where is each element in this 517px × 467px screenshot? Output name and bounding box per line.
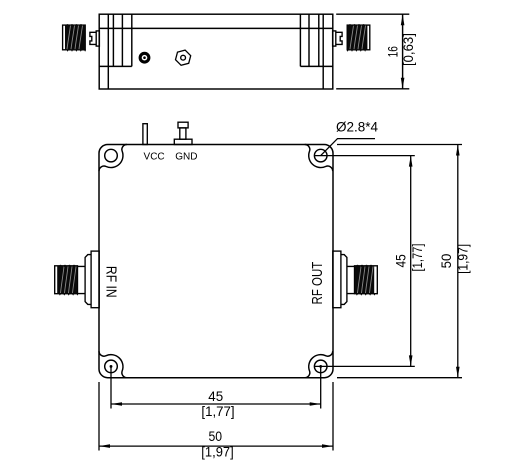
VCC pin (143, 124, 147, 145)
top view lid seam line (99, 27, 333, 29)
mounting hole top-left (105, 149, 118, 162)
dimension 16 extension lines (336, 13, 409, 15)
dimension 50 vertical extension lines (337, 144, 462, 146)
corner pocket top-right (305, 144, 333, 171)
svg-text:45: 45 (393, 254, 409, 267)
dimension 50 vertical dim line (457, 145, 459, 378)
svg-text:45: 45 (208, 388, 223, 404)
svg-text:[1,97]: [1,97] (454, 244, 470, 274)
top view left SMA connector thread (63, 24, 87, 52)
RF OUT connector barrel (347, 266, 355, 293)
corner pocket bottom-right (305, 351, 333, 378)
GND feedthrough (174, 122, 192, 144)
RF IN connector hex nut (85, 255, 91, 305)
RF OUT connector hex nut (341, 255, 347, 305)
svg-text:[0,63]: [0,63] (400, 33, 416, 66)
main view box outline (99, 145, 333, 378)
svg-text:VCC: VCC (144, 152, 165, 163)
dimension 50 horizontal dim line (99, 445, 333, 447)
top view pin feedthrough circle (139, 52, 151, 64)
top view body outline (99, 14, 333, 89)
mounting hole bottom-right (314, 360, 327, 373)
dimension 45 horizontal extension lines (110, 366, 112, 408)
svg-text:[1,77]: [1,77] (201, 403, 234, 419)
RF IN connector barrel (78, 266, 86, 293)
svg-text:50: 50 (209, 428, 223, 444)
svg-text:[1,77]: [1,77] (409, 244, 425, 272)
RF IN connector thread (55, 265, 79, 296)
svg-text:50: 50 (438, 253, 454, 268)
top view right connector pin piece (333, 31, 343, 46)
mounting hole top-right (314, 149, 327, 162)
top view right connector panel block (300, 14, 332, 89)
corner pocket bottom-left (99, 351, 127, 378)
dimension 45 horizontal dim line (111, 403, 321, 405)
mounting hole bottom-left (105, 360, 118, 373)
top view right SMA connector thread (347, 24, 370, 52)
svg-text:[1,97]: [1,97] (201, 444, 233, 460)
corner pocket top-left (99, 144, 127, 171)
svg-text:Ø2.8*4: Ø2.8*4 (336, 118, 378, 134)
svg-text:RF IN: RF IN (103, 266, 120, 298)
top view left connector pin piece (90, 31, 99, 46)
RF IN connector flange (91, 251, 99, 308)
dimension 16 dim line (402, 14, 404, 89)
dimension 45 vertical dim line (410, 156, 412, 367)
dimension 50 horizontal extension lines (98, 382, 100, 451)
leader line for hole callout (321, 139, 375, 156)
svg-text:16: 16 (385, 46, 401, 57)
top view hex nut (176, 50, 191, 65)
top view left connector panel block (99, 14, 132, 89)
svg-text:GND: GND (175, 152, 197, 163)
svg-text:RF OUT: RF OUT (309, 262, 326, 305)
dimension 45 vertical extension lines (315, 155, 415, 157)
RF OUT connector thread (355, 265, 378, 296)
RF OUT connector flange (333, 251, 341, 308)
